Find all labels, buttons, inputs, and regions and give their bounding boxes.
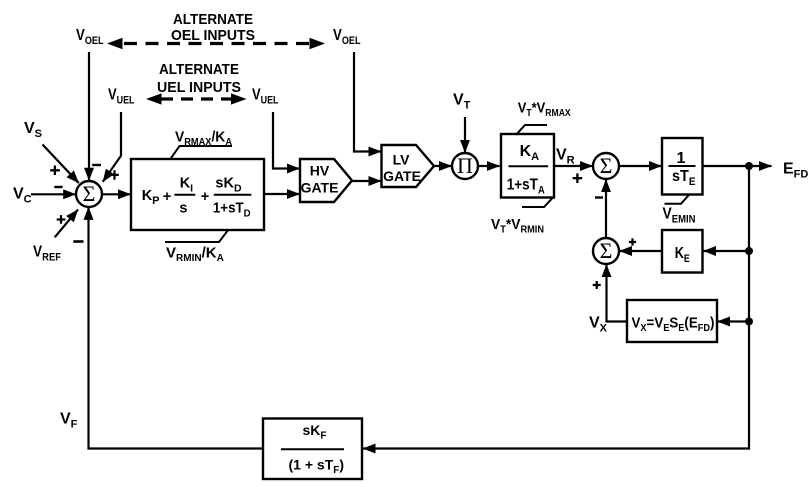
- wire KE output to summing junction 3: [620, 250, 663, 252]
- sign minus below summing junction 2: [595, 196, 603, 198]
- wire V_UEL left vertical+diagonal into summing junction: [103, 112, 121, 182]
- dashed arrow ALTERNATE OEL INPUTS: [107, 38, 325, 49]
- wire PID output to HV gate: [264, 193, 300, 195]
- wire V_S diagonal input: [43, 145, 79, 184]
- wire 1/sTE output to EFD node: [702, 165, 749, 167]
- svg-text:s: s: [179, 201, 187, 217]
- sign minus V_C input: [54, 186, 62, 188]
- multiplier PI: [452, 153, 478, 179]
- sign plus VX into summing junction 3: [593, 281, 601, 289]
- sign plus KE into summing junction 3: [629, 238, 636, 245]
- dashed arrow ALTERNATE UEL INPUTS: [146, 93, 247, 104]
- limit mark VRMAX/KA upper: [171, 146, 233, 159]
- amplifier block KA/(1+sTA): [501, 134, 554, 198]
- sign plus V_S input: [50, 166, 60, 176]
- wire V_OEL right vertical then into LV gate: [354, 52, 381, 152]
- wire V_UEL right vertical then into HV gate: [273, 112, 300, 169]
- wire summing junction output to PID block: [102, 193, 131, 195]
- limit mark VRMIN/KA lower: [165, 230, 228, 242]
- sign plus V_UEL input: [110, 170, 118, 180]
- svg-text:Σ: Σ: [83, 181, 96, 206]
- svg-text:+: +: [201, 189, 209, 205]
- svg-text:ALTERNATE: ALTERNATE: [173, 11, 253, 28]
- wire HV gate output to LV gate: [352, 180, 381, 182]
- feedback block sKF/(1+sTF): [263, 419, 362, 480]
- wire summing junction 2 output to 1/sTE block: [619, 165, 662, 167]
- svg-text:UEL INPUTS: UEL INPUTS: [157, 79, 241, 96]
- LV gate: [382, 145, 435, 187]
- limit mark VEMIN lower: [665, 195, 690, 204]
- wire V_T into multiplier: [464, 117, 466, 153]
- HV gate: [300, 159, 352, 202]
- svg-text:GATE: GATE: [383, 168, 421, 184]
- wire V_OEL left vertical into summing junction: [88, 52, 90, 180]
- gain block KE: [662, 230, 703, 273]
- svg-text:Π: Π: [457, 153, 473, 178]
- limit mark VT*VRMAX upper: [516, 125, 547, 135]
- wire KA output V_R to summing junction 2: [554, 165, 593, 167]
- svg-text:HV: HV: [310, 162, 330, 178]
- svg-text:LV: LV: [393, 152, 411, 168]
- summing junction 3: [593, 238, 619, 264]
- svg-text:ALTERNATE: ALTERNATE: [159, 61, 239, 78]
- svg-text:+: +: [163, 189, 171, 205]
- svg-text:Σ: Σ: [600, 238, 613, 263]
- node KE tap junction dot: [745, 247, 753, 255]
- node VX tap junction dot: [745, 318, 753, 326]
- wire VX output left and up into summing junction 3: [607, 265, 628, 322]
- wire V_REF diagonal input: [55, 210, 78, 238]
- wire V_C horizontal input: [31, 193, 76, 195]
- wire multiplier output to KA block: [478, 165, 500, 167]
- saturation block VX=VESE(EFD): [627, 300, 717, 342]
- wire EFD output arrow: [749, 165, 772, 167]
- sign minus V_OEL input: [92, 164, 101, 166]
- wire EFD node to KE block: [704, 250, 750, 252]
- wire feedback trunk down and into sKF block: [363, 166, 749, 449]
- wire LV gate output to multiplier: [434, 165, 452, 167]
- wire EFD node to VX block: [718, 320, 750, 322]
- svg-text:Σ: Σ: [600, 153, 613, 178]
- node EFD junction dot: [745, 162, 753, 170]
- svg-text:GATE: GATE: [301, 180, 339, 196]
- PID block KP+KI/s+sKD/(1+sTD): [131, 159, 264, 230]
- summing junction 2: [593, 153, 619, 179]
- sign minus V_F input: [73, 240, 83, 243]
- svg-text:OEL INPUTS: OEL INPUTS: [171, 27, 255, 44]
- wire summing junction 3 output up to summing junction 2: [605, 180, 607, 239]
- wire sKF output left and up into summing junction 1: [89, 207, 264, 448]
- sign plus V_R into summing junction 2: [573, 173, 583, 183]
- sign plus V_REF input: [57, 215, 66, 224]
- integrator block 1/sTE: [662, 138, 703, 195]
- svg-text:1: 1: [677, 150, 686, 167]
- summing junction 1: [76, 181, 102, 207]
- limit mark VT*VRMIN lower: [522, 198, 553, 207]
